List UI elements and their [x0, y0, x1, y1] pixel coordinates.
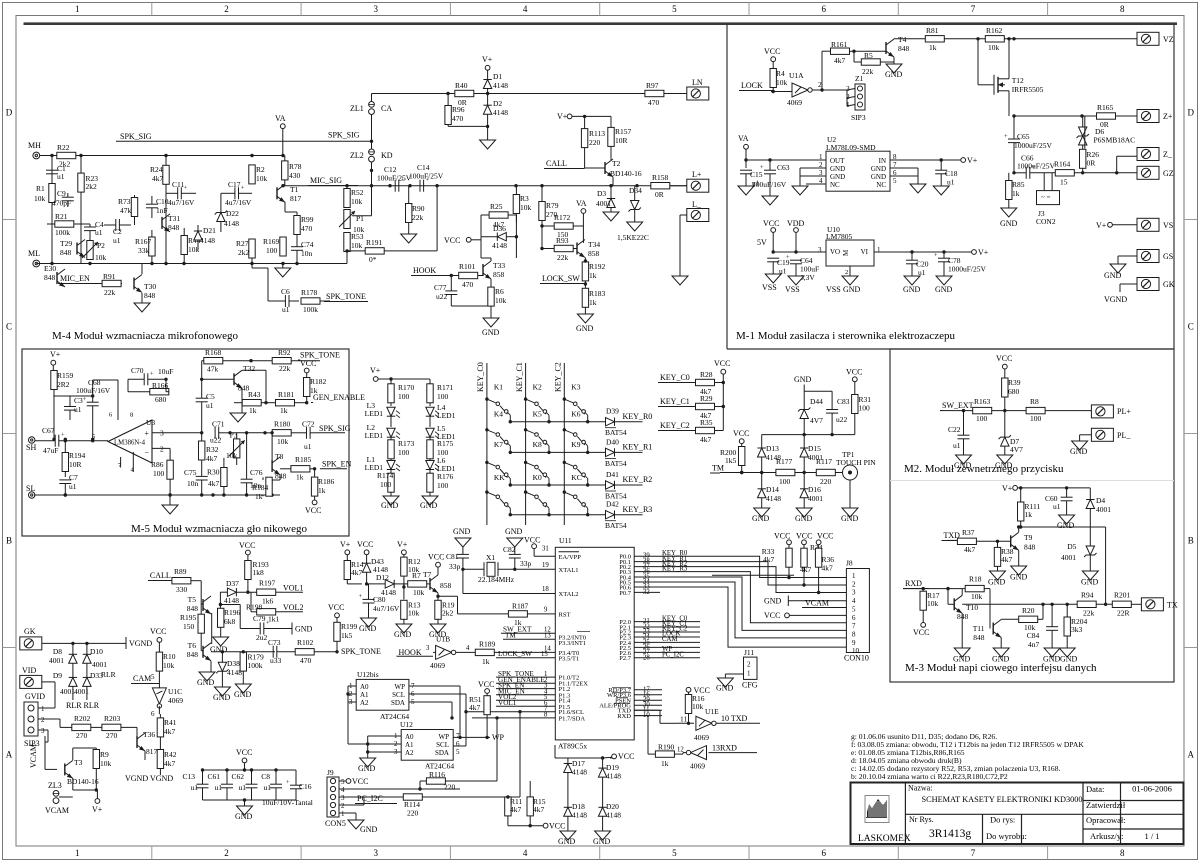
svg-text:U11: U11: [559, 536, 572, 545]
capacitor C67: [34, 426, 108, 455]
svg-text:U12bis: U12bis: [357, 670, 379, 679]
svg-text:4k7: 4k7: [533, 805, 545, 814]
ground c22: [954, 455, 972, 470]
resistor R14: [344, 560, 364, 584]
svg-text:1k1: 1k1: [268, 615, 280, 624]
label VGND m1: [1104, 295, 1127, 304]
module title M-5: [131, 523, 307, 535]
svg-text:R201: R201: [1114, 591, 1131, 600]
svg-text:4k7: 4k7: [700, 435, 712, 444]
resistor R28: [696, 370, 726, 396]
capacitor C81: [446, 552, 484, 571]
resistor R200: [720, 447, 745, 475]
net KEY_C2 label: [658, 421, 696, 431]
svg-text:MH: MH: [28, 141, 41, 150]
svg-text:C65: C65: [1017, 132, 1030, 141]
svg-text:A0: A0: [360, 683, 369, 691]
svg-text:1k5: 1k5: [725, 456, 737, 465]
ground under T30: [134, 303, 150, 312]
svg-text:10k: 10k: [163, 661, 175, 670]
resistor R186: [311, 469, 334, 500]
svg-text:R97: R97: [646, 81, 659, 90]
switch row 3: [485, 473, 589, 517]
svg-text:P3.3/INT1: P3.3/INT1: [559, 640, 587, 647]
diode D39: [605, 407, 652, 438]
svg-text:22k: 22k: [104, 288, 116, 297]
svg-text:4k7: 4k7: [510, 805, 522, 814]
resistor R163: [973, 397, 992, 423]
svg-text:33p: 33p: [449, 562, 461, 571]
svg-text:C10: C10: [156, 197, 169, 206]
net LOCK_SW top: [540, 274, 587, 286]
power node V+ led: [370, 366, 430, 384]
module box M-1 zasilacz: [727, 24, 1174, 349]
svg-text:B: B: [6, 536, 12, 546]
svg-text:D12: D12: [376, 573, 389, 582]
svg-text:GND: GND: [988, 578, 1006, 587]
net MIC_SIG m4: [308, 176, 358, 186]
svg-text:M-5 Moduł wzmacniacza gło nik: M-5 Moduł wzmacniacza gło nikowego: [131, 523, 307, 535]
resistor R202: [60, 714, 102, 740]
terminal VID: [20, 666, 55, 700]
svg-text:D22: D22: [226, 209, 239, 218]
svg-text:4148: 4148: [766, 494, 781, 503]
svg-text:E30: E30: [44, 264, 56, 273]
svg-text:1000uF/25V: 1000uF/25V: [1017, 162, 1056, 171]
transistor T10: [946, 587, 978, 648]
net TM u11: [503, 632, 555, 640]
svg-text:R1: R1: [36, 184, 45, 193]
svg-text:100: 100: [266, 246, 278, 255]
diode D42: [605, 500, 652, 531]
svg-text:5: 5: [456, 748, 460, 756]
svg-text:VCC: VCC: [524, 536, 540, 545]
svg-text:+: +: [1004, 133, 1008, 140]
svg-text:R169: R169: [263, 237, 280, 246]
touch pin TP1: [836, 450, 876, 480]
svg-text:4u7/16V: 4u7/16V: [168, 198, 195, 207]
transistor T34: [577, 240, 600, 259]
net KEY_C0 label: [658, 373, 696, 383]
svg-text:XTAL2: XTAL2: [559, 591, 579, 598]
ground under C78: [935, 276, 953, 294]
svg-text:Nazwa:: Nazwa:: [908, 784, 932, 793]
resistor R31: [852, 395, 872, 435]
resistor R51: [469, 693, 490, 737]
svg-text:100: 100: [976, 414, 988, 423]
svg-text:R196: R196: [224, 608, 241, 617]
svg-text:u1: u1: [264, 783, 272, 792]
svg-text:R182: R182: [310, 377, 327, 386]
svg-text:4k7: 4k7: [351, 568, 363, 577]
wire R23 column: [80, 156, 82, 264]
svg-text:4069: 4069: [694, 733, 709, 742]
svg-text:GEN_ENABLE: GEN_ENABLE: [313, 393, 365, 402]
ground under U2 right: [910, 184, 926, 193]
LASKOMEX logo: [865, 796, 889, 823]
svg-text:D41: D41: [606, 470, 619, 479]
resistor R19: [435, 600, 455, 624]
svg-text:T34: T34: [588, 240, 600, 249]
svg-text:VCC: VCC: [733, 429, 749, 438]
svg-text:SCL: SCL: [436, 741, 449, 749]
svg-text:TOUCH PIN: TOUCH PIN: [836, 458, 876, 467]
connector J9 CON5: [325, 768, 346, 828]
ground xtal right: [505, 527, 523, 554]
resistor R81: [925, 26, 985, 52]
svg-text:6: 6: [821, 4, 826, 14]
svg-text:R20: R20: [1022, 606, 1035, 615]
resistor R53: [344, 232, 364, 264]
svg-text:4148: 4148: [606, 772, 621, 781]
resistor R9: [93, 748, 111, 792]
svg-text:430: 430: [289, 171, 301, 180]
svg-text:1k: 1k: [318, 486, 326, 495]
svg-text:7: 7: [971, 4, 976, 14]
net LOCK m1: [739, 81, 792, 92]
svg-text:C80: C80: [373, 595, 386, 604]
svg-text:Nr Rys.: Nr Rys.: [909, 815, 934, 824]
capacitor C66: [1012, 154, 1055, 179]
svg-text:U1C: U1C: [168, 687, 182, 696]
resistor R114: [395, 710, 522, 818]
power node V+ bl: [92, 799, 103, 814]
resistor R10: [156, 642, 176, 672]
power node VCC t33: [444, 236, 481, 245]
svg-text:1 / 1: 1 / 1: [1144, 831, 1159, 841]
resistor R7: [404, 571, 430, 599]
svg-text:D42: D42: [606, 500, 619, 509]
power node V+ top: [482, 55, 493, 80]
net KEY_C1 label: [658, 397, 696, 407]
wire ML rail: [36, 262, 347, 265]
svg-text:T2: T2: [612, 159, 621, 168]
svg-text:T29: T29: [60, 239, 72, 248]
svg-text:4001: 4001: [596, 199, 611, 208]
svg-text:100: 100: [779, 477, 791, 486]
svg-text:R161: R161: [831, 40, 848, 49]
svg-text:1: 1: [877, 246, 881, 254]
connector J11 CFG: [742, 648, 758, 690]
resistor R33: [762, 547, 792, 579]
svg-text:1k: 1k: [249, 406, 257, 415]
svg-text:VS: VS: [1163, 221, 1173, 230]
terminal Z-: [1137, 148, 1173, 161]
svg-text:D4: D4: [1096, 496, 1105, 505]
svg-text:GS: GS: [1163, 252, 1173, 261]
svg-text:R81: R81: [926, 26, 939, 35]
capacitor C6: [275, 287, 299, 314]
transistor T33: [483, 258, 505, 287]
svg-text:R198: R198: [246, 603, 263, 612]
power node V+ m3: [1002, 484, 1090, 493]
power node VCC tm: [733, 429, 749, 447]
svg-text:10k: 10k: [520, 203, 532, 212]
svg-text:VCC: VCC: [236, 748, 252, 757]
svg-text:SPK_EN: SPK_EN: [322, 460, 352, 469]
ground under C63: [762, 196, 778, 205]
svg-text:4148: 4148: [492, 241, 507, 250]
svg-text:D5: D5: [1067, 542, 1076, 551]
svg-text:100k: 100k: [248, 661, 263, 670]
svg-text:+: +: [83, 396, 87, 403]
power node VCC r16: [686, 686, 710, 695]
svg-text:R27: R27: [236, 239, 249, 248]
resistor R111: [1018, 488, 1041, 529]
svg-text:1: 1: [852, 572, 856, 580]
svg-text:V+: V+: [978, 248, 989, 257]
svg-text:u1: u1: [947, 178, 955, 187]
power node VCC keys: [714, 359, 730, 431]
power node VCC t10: [913, 623, 929, 638]
svg-text:C75: C75: [184, 468, 197, 477]
svg-text:220: 220: [820, 477, 832, 486]
svg-text:848: 848: [60, 248, 72, 257]
svg-text:A2: A2: [360, 699, 369, 707]
wire U12bis address pins: [346, 686, 356, 744]
resistor R178: [301, 288, 330, 314]
wire m5 vplus rail: [53, 371, 118, 421]
svg-text:u22: u22: [836, 415, 848, 424]
resistor R25: [481, 202, 516, 237]
svg-text:GND: GND: [953, 655, 971, 664]
svg-text:C73: C73: [268, 638, 281, 647]
svg-text:10k: 10k: [408, 609, 420, 618]
diode D34 zener: [629, 186, 643, 222]
svg-text:2R2: 2R2: [57, 380, 70, 389]
svg-text:R10: R10: [163, 652, 176, 661]
svg-text:4069: 4069: [690, 762, 705, 771]
svg-text:VGND: VGND: [1104, 295, 1127, 304]
resistor R92: [251, 348, 320, 373]
svg-text:6k8: 6k8: [224, 617, 236, 626]
svg-text:13: 13: [544, 633, 551, 640]
capacitor C74: [291, 240, 314, 264]
resistor R117: [816, 457, 835, 486]
svg-text:C11: C11: [172, 180, 184, 189]
svg-text:220: 220: [589, 138, 601, 147]
capacitor C70: [128, 366, 173, 392]
svg-text:4k7: 4k7: [763, 555, 775, 564]
svg-text:10k: 10k: [351, 241, 363, 250]
wire MIC_SIG rail: [281, 184, 688, 187]
svg-text:4k7: 4k7: [208, 479, 220, 488]
capacitor C20: [906, 252, 929, 277]
svg-text:VA: VA: [738, 134, 749, 143]
terminal LN: [664, 78, 709, 100]
svg-text:R5: R5: [864, 51, 873, 60]
diode D41: [605, 470, 652, 501]
power node VCC m5a: [300, 359, 316, 379]
transistor T6: [187, 641, 211, 672]
svg-text:L_: L_: [692, 200, 702, 209]
resistor R192: [582, 258, 605, 289]
svg-text:R191: R191: [366, 238, 383, 247]
svg-text:CON5: CON5: [325, 819, 346, 828]
top heavy separator line: [24, 22, 1178, 25]
svg-text:WP: WP: [395, 683, 406, 691]
svg-text:R165: R165: [1097, 103, 1114, 112]
svg-text:C72: C72: [302, 420, 315, 429]
svg-text:10k: 10k: [34, 194, 46, 203]
connector Z1 SIP3: [846, 74, 866, 122]
svg-text:330: 330: [176, 585, 188, 594]
module title M-1: [736, 330, 955, 342]
resistor R176: [427, 472, 454, 496]
transistor T12 mosfet: [976, 37, 1043, 116]
svg-text:848: 848: [275, 472, 287, 481]
power node V+ U2: [940, 156, 978, 165]
svg-text:470: 470: [462, 280, 474, 289]
svg-text:Z+: Z+: [1163, 112, 1173, 121]
svg-text:GND: GND: [1000, 219, 1018, 228]
capacitor C61: [207, 770, 233, 800]
svg-text:ZL2: ZL2: [350, 151, 364, 160]
svg-text:R53: R53: [351, 232, 364, 241]
svg-text:T1: T1: [290, 185, 299, 194]
svg-text:T3: T3: [74, 758, 83, 767]
svg-text:D8: D8: [53, 647, 62, 656]
svg-text:GND: GND: [505, 527, 523, 536]
transistor T7: [423, 553, 508, 614]
net SPK_TONE m4: [324, 292, 368, 302]
svg-text:R78: R78: [289, 162, 302, 171]
svg-text:R79: R79: [546, 201, 559, 210]
ic U11 P2 pins: [619, 615, 700, 662]
resistor R18: [962, 575, 990, 629]
diode D7 zener: [999, 411, 1024, 455]
wire SCL pin: [466, 706, 555, 713]
svg-text:T31: T31: [168, 214, 180, 223]
resistor R196: [218, 608, 241, 637]
svg-text:VCC: VCC: [300, 359, 316, 368]
svg-text:31: 31: [542, 546, 549, 553]
transistor T36: [137, 730, 158, 760]
svg-text:KK: KK: [494, 473, 505, 482]
svg-text:A1: A1: [405, 741, 414, 749]
wire MH rail: [36, 154, 284, 157]
svg-text:2: 2: [224, 4, 229, 14]
svg-text:CALL: CALL: [546, 159, 567, 168]
svg-text:R52: R52: [351, 188, 364, 197]
svg-text:u1: u1: [113, 236, 121, 245]
svg-text:R3: R3: [520, 194, 529, 203]
net CALL top: [544, 159, 585, 169]
net GEN_ENABLE m5: [311, 393, 365, 403]
capacitor C82: [503, 545, 532, 571]
svg-text:LM7805: LM7805: [826, 232, 853, 241]
inverter U1F: [683, 744, 757, 771]
svg-text:1,5KE22C: 1,5KE22C: [617, 233, 649, 242]
svg-text:K3: K3: [571, 383, 580, 392]
svg-text:GND: GND: [871, 173, 886, 181]
power node V+ m5: [50, 350, 61, 371]
svg-text:4148: 4148: [493, 108, 508, 117]
svg-text:5: 5: [852, 605, 856, 613]
svg-text:Opracował:: Opracował:: [1086, 815, 1126, 825]
svg-text:4: 4: [523, 848, 528, 858]
power node VCC r10: [150, 627, 166, 642]
svg-text:LASKOMEX: LASKOMEX: [858, 834, 911, 844]
svg-text:C84: C84: [1027, 631, 1040, 640]
svg-text:P6SMB18AC: P6SMB18AC: [1094, 136, 1136, 145]
svg-text:GND: GND: [394, 630, 412, 639]
svg-text:GND: GND: [752, 514, 770, 523]
svg-text:3: 3: [426, 645, 430, 652]
svg-text:u1: u1: [304, 442, 312, 451]
svg-text:IRFR5505: IRFR5505: [1012, 85, 1044, 94]
svg-text:4: 4: [852, 597, 856, 605]
svg-text:270: 270: [106, 731, 118, 740]
resistor R38: [994, 541, 1013, 571]
divider M2/M-3: [890, 480, 1174, 482]
ground under D34: [617, 222, 649, 242]
wire m5 bottom rail: [34, 493, 280, 496]
title block table: [851, 783, 1184, 845]
ground under C15: [738, 186, 754, 195]
capacitor C3: [64, 394, 94, 420]
wire U2 pins2-3 gnd: [792, 168, 826, 195]
svg-text:V+: V+: [92, 805, 103, 814]
svg-text:GND: GND: [576, 324, 594, 333]
svg-text:GND: GND: [1060, 655, 1078, 664]
wire TM rail: [720, 471, 843, 474]
svg-text:GND: GND: [359, 624, 377, 633]
resistor R194: [62, 438, 85, 477]
terminal Z+: [1137, 110, 1173, 123]
resistor R181: [276, 390, 309, 415]
svg-text:R167: R167: [135, 237, 152, 246]
wire t6 collector rail: [211, 613, 275, 654]
svg-text:OUT: OUT: [830, 157, 845, 165]
resistor R199: [334, 622, 358, 652]
svg-text:4001: 4001: [49, 656, 64, 665]
resistor R20: [1001, 604, 1043, 632]
svg-text:R91: R91: [103, 272, 116, 281]
ground under M-4: [275, 264, 291, 278]
wire J8 pin6 VCC: [764, 611, 846, 620]
svg-text:KEY_C0: KEY_C0: [660, 373, 690, 382]
svg-text:8: 8: [852, 631, 856, 639]
wire T1 emitter: [285, 202, 297, 212]
svg-text:VCC: VCC: [618, 752, 634, 761]
wire Z+ rail: [1012, 114, 1137, 117]
svg-text:R186: R186: [318, 477, 335, 486]
net SPK_TONE m5: [298, 351, 340, 361]
svg-text:10: 10: [852, 647, 860, 655]
svg-text:4069: 4069: [168, 696, 183, 705]
ground r38: [988, 571, 1006, 587]
svg-text:KEY_C1: KEY_C1: [660, 397, 690, 406]
svg-text:SDA: SDA: [435, 749, 449, 757]
wire SDA net: [409, 702, 454, 720]
ground d5: [1081, 571, 1099, 587]
diode D38 zener: [216, 652, 242, 687]
ground xtal left: [453, 527, 471, 554]
svg-text:848: 848: [144, 291, 156, 300]
resistor R182: [304, 377, 327, 403]
svg-text:R22: R22: [57, 143, 70, 152]
svg-text:GND: GND: [1070, 447, 1088, 456]
svg-text:BD140-16: BD140-16: [610, 169, 642, 178]
svg-text:LOCK_SW: LOCK_SW: [542, 274, 580, 283]
svg-text:KEY_R1: KEY_R1: [623, 443, 653, 452]
opamp U3 LM386: [92, 412, 202, 474]
resistor R164: [1054, 160, 1137, 187]
wire TXD from U11: [634, 710, 676, 723]
svg-text:R184: R184: [252, 483, 269, 492]
svg-text:u22: u22: [210, 436, 222, 445]
